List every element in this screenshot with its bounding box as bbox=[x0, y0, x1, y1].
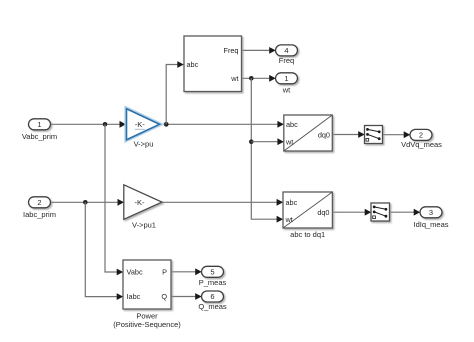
svg-text:2: 2 bbox=[37, 198, 41, 207]
wire gain V->pu1 output to abc to dq1 abc input bbox=[162, 201, 278, 203]
outport 4 bbox=[276, 45, 298, 56]
junction wt bus at dq0 level bbox=[249, 139, 254, 144]
arrowhead into outport 5 P_meas bbox=[195, 268, 202, 275]
svg-text:-K-: -K- bbox=[135, 198, 146, 207]
wire Iabc_prim to gain V->pu1 bbox=[51, 201, 120, 203]
wire wt vertical bus bbox=[251, 78, 279, 219]
wire branch up to PLL abc input bbox=[166, 65, 179, 125]
wire Power Q output to outport 6 bbox=[171, 296, 197, 298]
abc to dq1 block bbox=[283, 192, 332, 228]
arrowhead into selector 2 bbox=[365, 209, 372, 216]
wire PLL wt output to outport 1 bbox=[242, 77, 272, 79]
svg-text:wt: wt bbox=[230, 74, 238, 83]
outport 3 bbox=[420, 207, 442, 218]
wire branch Vabc_prim down to Power Vabc bbox=[105, 124, 118, 272]
arrowhead into outport 1 wt bbox=[269, 75, 276, 82]
outport 5 bbox=[202, 266, 224, 277]
outport 6 bbox=[202, 291, 224, 302]
arrowhead into abc to dq0 wt bbox=[277, 138, 284, 145]
wire Power P output to outport 5 bbox=[171, 271, 197, 273]
gain V->pu1 bbox=[124, 185, 162, 220]
svg-text:-K-: -K- bbox=[135, 120, 146, 129]
arrowhead into gain V->pu1 bbox=[118, 199, 125, 206]
svg-text:1: 1 bbox=[37, 120, 41, 129]
arrowhead into outport 2 VdVq_meas bbox=[404, 131, 411, 138]
svg-text:wt: wt bbox=[285, 215, 293, 224]
junction on wt wire bbox=[249, 76, 254, 81]
svg-text:abc: abc bbox=[286, 198, 298, 207]
selector 1 bbox=[365, 126, 383, 144]
svg-text:(Positive-Sequence): (Positive-Sequence) bbox=[113, 320, 181, 329]
gain V->pu selected blue bbox=[127, 109, 160, 140]
arrowhead into abc to dq1 abc bbox=[277, 199, 284, 206]
arrowhead into gain V->pu bbox=[120, 121, 127, 128]
svg-text:dq0: dq0 bbox=[318, 130, 330, 139]
svg-text:V->pu1: V->pu1 bbox=[132, 220, 156, 229]
arrowhead into Power Vabc bbox=[117, 269, 124, 276]
wire abc to dq0 output to selector 1 bbox=[332, 134, 360, 136]
wire wt bus to abc to dq0 wt input bbox=[251, 141, 279, 143]
svg-text:wt: wt bbox=[282, 85, 291, 94]
svg-text:abc: abc bbox=[286, 120, 298, 129]
arrowhead into outport 4 Freq bbox=[269, 47, 276, 54]
selector 2 bbox=[371, 203, 390, 221]
junction after gain V->pu bbox=[164, 122, 169, 127]
svg-text:2: 2 bbox=[419, 131, 423, 140]
outport 2 bbox=[410, 129, 432, 140]
arrowhead into abc to dq0 abc bbox=[277, 121, 284, 128]
wire selector 2 to outport 3 bbox=[390, 211, 416, 213]
junction on Vabc_prim wire bbox=[103, 122, 108, 127]
svg-text:Iabc_prim: Iabc_prim bbox=[23, 210, 56, 219]
svg-text:Freq: Freq bbox=[223, 46, 238, 55]
svg-text:Q: Q bbox=[161, 292, 167, 301]
arrowhead into outport 6 Q_meas bbox=[195, 293, 202, 300]
svg-text:dq0: dq0 bbox=[317, 208, 329, 217]
outport 1 wt bbox=[276, 73, 298, 84]
arrowhead into PLL abc bbox=[177, 61, 184, 68]
abc to dq0 block bbox=[284, 115, 333, 151]
svg-text:1: 1 bbox=[284, 74, 288, 83]
inport 2 bbox=[29, 197, 51, 208]
PLL block (abc Freq wt) bbox=[184, 36, 242, 92]
svg-text:abc to dq1: abc to dq1 bbox=[290, 230, 325, 239]
svg-text:IdIq_meas: IdIq_meas bbox=[413, 220, 448, 229]
svg-text:wt: wt bbox=[285, 137, 293, 146]
svg-text:6: 6 bbox=[210, 292, 214, 301]
svg-text:Freq: Freq bbox=[279, 56, 294, 65]
svg-text:Iabc: Iabc bbox=[127, 292, 141, 301]
svg-text:abc: abc bbox=[187, 60, 199, 69]
arrowhead into outport 3 IdIq_meas bbox=[414, 209, 421, 216]
svg-text:Vabc_prim: Vabc_prim bbox=[22, 132, 57, 141]
inport 1 bbox=[29, 119, 51, 130]
junction on Iabc_prim wire bbox=[83, 200, 88, 205]
svg-text:Vabc: Vabc bbox=[127, 268, 143, 277]
svg-text:5: 5 bbox=[210, 268, 214, 277]
arrowhead into Power Iabc bbox=[117, 293, 124, 300]
wire PLL Freq output to outport 4 bbox=[242, 49, 272, 51]
arrowhead into abc to dq1 wt bbox=[277, 216, 284, 223]
wire selector 1 to outport 2 bbox=[383, 134, 406, 136]
svg-text:VdVq_meas: VdVq_meas bbox=[401, 140, 442, 149]
Power (Positive-Sequence) block bbox=[123, 260, 171, 309]
svg-text:Q_meas: Q_meas bbox=[198, 302, 227, 311]
wire abc to dq1 output to selector 2 bbox=[332, 211, 366, 213]
svg-text:4: 4 bbox=[284, 46, 288, 55]
svg-text:V->pu: V->pu bbox=[134, 140, 154, 149]
arrowhead into selector 1 bbox=[358, 131, 365, 138]
svg-text:P_meas: P_meas bbox=[199, 278, 227, 287]
svg-text:3: 3 bbox=[429, 208, 433, 217]
wire gain V->pu output to abc to dq0 abc input bbox=[160, 123, 280, 125]
wire branch Iabc_prim down to Power Iabc bbox=[85, 202, 118, 296]
wire Vabc_prim to gain V->pu bbox=[51, 123, 122, 125]
svg-text:P: P bbox=[162, 267, 167, 276]
